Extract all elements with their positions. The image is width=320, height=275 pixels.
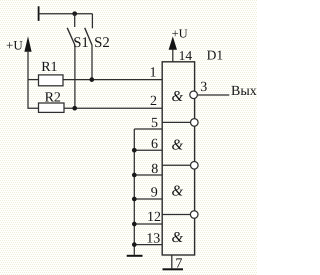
junction: bus/pin6 (132, 148, 137, 153)
inversion bubble, gate3 output (191, 162, 199, 170)
svg-text:+U: +U (6, 37, 23, 52)
wire: +U rail down, elbow to R2 (28, 51, 39, 109)
wire: pin 8 row (134, 174, 162, 176)
wire: R2 to IC pin 2 (64, 107, 162, 109)
gate divider 1 / gate2 output row (162, 121, 190, 123)
wire: pin 9 row (134, 198, 162, 200)
wire: S2 bottom lead down to R1 row (91, 45, 93, 80)
svg-text:&: & (172, 89, 184, 105)
svg-text:12: 12 (147, 210, 161, 225)
ground (pin 7) (163, 268, 184, 270)
svg-text:2: 2 (150, 94, 157, 109)
switch S1 top contact stub (74, 14, 76, 27)
svg-text:S2: S2 (94, 35, 110, 51)
svg-text:9: 9 (151, 185, 158, 200)
junction: bus/pin12 (132, 222, 137, 227)
junction: S1 lead on pin-2 wire (72, 106, 77, 111)
wire: pin 7 stub (171, 255, 173, 268)
wire: pin 6 row (134, 149, 162, 151)
switch S2 blade (85, 28, 92, 45)
svg-text:+U: +U (172, 27, 188, 41)
wire: R1 to IC pin 1 (63, 79, 162, 81)
wire: top rail elbow down to S2 contact (91, 14, 93, 29)
inversion bubble, gate1 output pin 3 (190, 91, 198, 99)
svg-text:&: & (172, 138, 184, 154)
inversion bubble, gate2 output (191, 119, 199, 127)
power +U at pin 14: arrow (169, 36, 177, 49)
svg-text:14: 14 (179, 48, 193, 63)
svg-text:D1: D1 (207, 48, 224, 63)
gate divider 3 / gate4 output row (162, 214, 190, 216)
switch S1 blade (67, 28, 75, 45)
svg-text:R2: R2 (45, 91, 61, 106)
svg-text:&: & (172, 230, 184, 246)
resistor R1 (39, 75, 64, 86)
wire: pin 12 row (134, 223, 162, 225)
svg-text:&: & (172, 183, 184, 199)
wire: +U rail branch to R1 (28, 79, 39, 81)
junction: bus/pin8 (132, 173, 137, 178)
ground (top common, sideways bar) (38, 6, 40, 21)
svg-text:1: 1 (150, 66, 157, 81)
svg-text:3: 3 (200, 80, 207, 95)
gate divider 2 / gate3 output row (162, 164, 190, 166)
junction: node at top rail / S1 (72, 11, 77, 16)
wire: pin 13 row (134, 244, 162, 246)
svg-text:R1: R1 (41, 60, 57, 75)
wire: grounding bus (pins 5,6,8,9,12,13) (133, 129, 135, 255)
wire: S1 bottom lead down to R2 row (74, 45, 76, 108)
svg-text:Вых: Вых (231, 84, 257, 99)
inversion bubble, gate4 output (190, 211, 198, 219)
svg-text:S1: S1 (73, 35, 89, 51)
wire: top common rail (39, 13, 93, 15)
junction: bus/pin9 (132, 197, 137, 202)
wire: pin 5 row from bus elbow to IC (134, 128, 162, 130)
ground (bus bottom) (127, 255, 143, 257)
op IC D1 body (162, 62, 194, 255)
junction: bus/pin13 (132, 242, 137, 247)
wire: pin 3 output to Vykh (198, 94, 230, 96)
power +U (left) arrow (24, 36, 31, 52)
junction: S2 lead on pin-1 wire (89, 77, 94, 82)
resistor R2 (39, 103, 65, 112)
wire: pin 14 stub (172, 50, 174, 62)
